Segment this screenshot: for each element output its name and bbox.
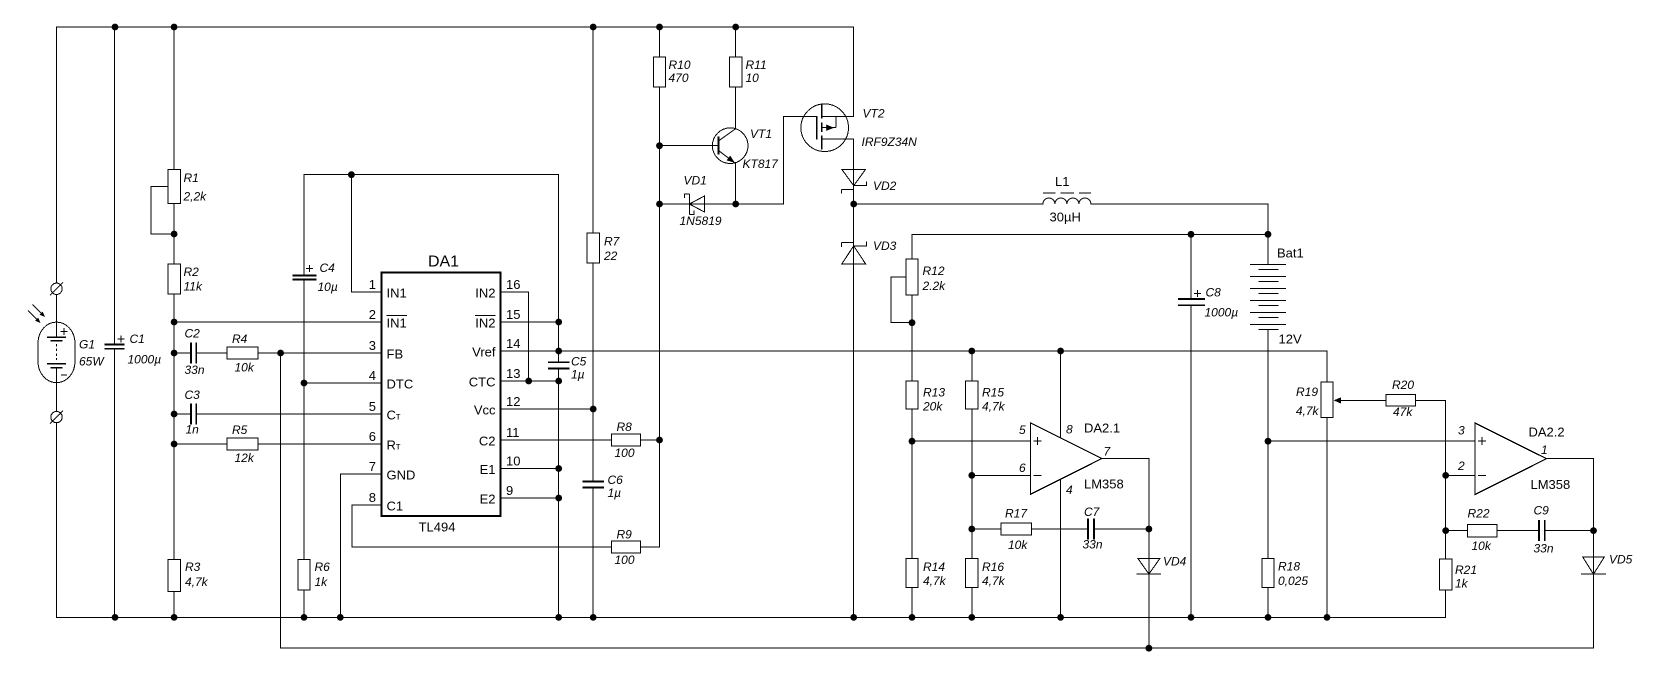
junction (1148.9,648.2): [1146, 645, 1153, 652]
junction (659.5,204): [656, 201, 663, 208]
wire: top +supply rail: [57, 26, 854, 28]
svg-text:IRF9Z34N: IRF9Z34N: [862, 135, 918, 149]
svg-text:6: 6: [369, 429, 376, 444]
resistor R15 4,7k: [966, 381, 978, 409]
svg-text:Cт: Cт: [387, 408, 401, 423]
wire: DA2.1 output drop: [1102, 459, 1149, 530]
label C6 value: [608, 473, 624, 500]
svg-text:8: 8: [369, 490, 376, 505]
DA1 pin 3 FB (number and name): [369, 338, 403, 362]
wire: VD1 cathode line to gate riser: [705, 117, 817, 204]
svg-text:100: 100: [615, 446, 635, 460]
svg-text:11: 11: [506, 425, 520, 440]
DA1 pin 5 Ct (number and name): [369, 399, 401, 423]
label R17 value: [1005, 507, 1028, 553]
svg-text:VD3: VD3: [873, 239, 897, 253]
capacitor C3 1n: [191, 404, 196, 425]
svg-text:4: 4: [1066, 483, 1073, 497]
wire: GND pin7 route: [340, 474, 381, 617]
wire: VD3 anode to ground: [853, 264, 855, 618]
junction (115,27): [112, 24, 119, 31]
junction (971.8,351): [968, 348, 975, 355]
svg-text:E2: E2: [480, 492, 496, 507]
junction (735.7,27): [732, 24, 739, 31]
wire: pin14 Vref line: [501, 350, 559, 352]
svg-text:R20: R20: [1392, 378, 1414, 392]
resistor R3 4,7k: [168, 560, 180, 592]
svg-text:4,7k: 4,7k: [982, 574, 1006, 588]
wire: VD4 branch: [1148, 529, 1150, 648]
svg-text:2: 2: [1457, 459, 1465, 473]
svg-text:1µ: 1µ: [571, 368, 585, 382]
junction (971.8,475.4): [968, 472, 975, 479]
wire: DA2.2 +input line: [1268, 440, 1475, 442]
junction (1060.6,351): [1057, 348, 1064, 355]
capacitor C8 1000u: [1178, 290, 1205, 305]
DA1 pin 8 C1 (number and name): [369, 490, 403, 514]
resistor R9 100: [612, 541, 641, 553]
resistor R1 2,2k trimmer: [151, 170, 180, 234]
svg-text:1n: 1n: [186, 423, 200, 437]
label R8 value: [615, 420, 635, 460]
svg-text:R4: R4: [232, 332, 248, 346]
svg-text:2,2k: 2,2k: [183, 190, 208, 204]
svg-text:R16: R16: [982, 560, 1004, 574]
resistor R2 11k: [168, 264, 180, 294]
capacitor C9 33n: [1539, 520, 1545, 541]
svg-text:7: 7: [369, 459, 376, 474]
wire: C8 branch: [1190, 234, 1192, 617]
wire: R22-C9 feedback line: [1446, 530, 1594, 532]
label C3 value: [185, 388, 201, 437]
svg-text:1N5819: 1N5819: [680, 214, 722, 228]
svg-text:C6: C6: [608, 473, 624, 487]
DA1 pin 4 DTC (number and name): [369, 368, 413, 392]
label L1 value 30uH: [1050, 174, 1081, 225]
resistor R13 20k: [906, 381, 918, 409]
label C5 value: [571, 355, 587, 382]
transistor VT1 KT817 (NPN): [712, 128, 748, 164]
junction (174.1,617.4): [171, 614, 178, 621]
capacitor C2 33n: [191, 343, 196, 364]
svg-text:CTC: CTC: [469, 375, 496, 390]
wire: VD1 anode line: [660, 203, 705, 205]
wire: DA2.2 -input line: [1446, 474, 1475, 476]
resistor R17 10k: [1001, 523, 1032, 535]
label G1 value 65W: [79, 338, 105, 369]
wire: Vref rail: [559, 350, 1327, 352]
wire: R6 branch: [303, 383, 305, 617]
junction (174.1,27): [171, 24, 178, 31]
svg-text:11k: 11k: [184, 280, 203, 294]
DA1 pin 6 Rt (number and name): [369, 429, 401, 453]
wire: C5 vertical (soft line down): [558, 175, 560, 618]
resistor R19 4,7k trimmer: [1321, 382, 1333, 417]
svg-text:VT2: VT2: [863, 107, 885, 121]
svg-text:C7: C7: [1084, 505, 1101, 519]
wire: R20 right riser through R21: [1445, 400, 1447, 617]
R19 wiper arrow from R20: [1334, 397, 1387, 403]
svg-text:C1: C1: [387, 499, 404, 514]
DA1 pin 13 CTC (number and name): [469, 366, 521, 390]
label VT2 type IRF9Z34N: [862, 107, 918, 150]
resistor R4 10k: [227, 347, 258, 359]
wire: R11 branch: [735, 27, 737, 129]
label R15 value: [982, 386, 1006, 414]
svg-text:47k: 47k: [1393, 405, 1413, 419]
junction (1445.7,475.4): [1442, 472, 1449, 479]
svg-text:1000µ: 1000µ: [1205, 306, 1239, 320]
svg-text:C9: C9: [1534, 504, 1550, 518]
capacitor C5 1u: [548, 362, 569, 368]
DA1 pin 12 Vcc (number and name): [474, 394, 521, 418]
label R4 value: [232, 332, 255, 375]
svg-text:LM358: LM358: [1531, 477, 1571, 492]
svg-text:16: 16: [506, 277, 520, 292]
label R16 value: [982, 560, 1006, 588]
junction (340.3,617.4): [337, 614, 344, 621]
svg-text:10: 10: [746, 71, 760, 85]
svg-text:KT817: KT817: [743, 157, 780, 171]
wire: VT2 source riser: [853, 27, 855, 117]
label R10 value: [669, 58, 691, 85]
DA1 pin 2 IN1 (number and name): [369, 307, 407, 331]
svg-text:R17: R17: [1005, 507, 1028, 521]
label R21 value: [1455, 563, 1477, 591]
resistor R14 4,7k: [906, 559, 918, 588]
junction (558.7,381): [555, 378, 562, 385]
svg-text:R2: R2: [184, 265, 200, 279]
battery Bat1 12V: [1250, 204, 1286, 351]
junction (558.7,322): [555, 319, 562, 326]
svg-text:6: 6: [1019, 461, 1026, 475]
junction (912,441.2): [909, 438, 916, 445]
junction (853.7,204): [850, 201, 857, 208]
wire: G1 upper branch: [56, 27, 58, 283]
junction (593.2,409): [590, 406, 597, 413]
junction (1148.9,529): [1146, 526, 1153, 533]
svg-text:IN1: IN1: [387, 286, 407, 301]
junction (735.7,204): [732, 201, 739, 208]
wire: C2-R4 line to FB: [174, 352, 382, 354]
svg-text:LM358: LM358: [1084, 477, 1124, 492]
junction (1191,617.4): [1188, 614, 1195, 621]
wire: VT1 emitter drop: [735, 164, 737, 205]
label R2 value: [184, 265, 203, 294]
junction (1268,441.2): [1265, 438, 1272, 445]
svg-text:VD2: VD2: [873, 179, 897, 193]
resistor R12 2.2k trimmer: [891, 259, 918, 323]
capacitor C6 1u: [583, 481, 604, 487]
solar battery G1: [28, 295, 75, 412]
junction (1327,617.4): [1324, 614, 1331, 621]
DA1 pin 10 E1 (number and name): [480, 454, 521, 478]
junction (558.7,468.5): [555, 465, 562, 472]
svg-text:R1: R1: [184, 171, 199, 185]
junction (912,617.4): [909, 614, 916, 621]
svg-text:GND: GND: [387, 468, 416, 483]
svg-text:9: 9: [506, 483, 513, 498]
wire: C3 line to Ct pin5: [174, 413, 382, 415]
resistor R5 12k: [227, 438, 258, 450]
svg-text:R9: R9: [617, 528, 633, 542]
junction (528.7,381): [525, 378, 532, 385]
label C7 value: [1083, 505, 1103, 552]
wire: DA2.1 -input line: [972, 474, 1031, 476]
svg-text:R12: R12: [923, 264, 945, 278]
svg-text:10k: 10k: [1008, 538, 1028, 552]
svg-text:TL494: TL494: [419, 520, 456, 535]
svg-text:1: 1: [1541, 443, 1548, 457]
label R9 value: [615, 528, 635, 568]
svg-text:20k: 20k: [922, 400, 943, 414]
svg-text:10µ: 10µ: [318, 280, 338, 294]
junction (174.1,353): [171, 350, 178, 357]
svg-text:R11: R11: [746, 58, 767, 72]
svg-text:10k: 10k: [235, 361, 255, 375]
svg-text:C2: C2: [185, 327, 201, 341]
junction (1445.7,530.6): [1442, 527, 1449, 534]
svg-text:2.2k: 2.2k: [922, 279, 947, 293]
label VT1 type KT817: [743, 127, 780, 171]
wire: soft-start line with C4 branch: [304, 175, 559, 383]
label R3 value: [185, 560, 209, 589]
svg-text:R18: R18: [1278, 560, 1300, 574]
junction (280.6,353): [277, 350, 284, 357]
svg-text:VD4: VD4: [1163, 555, 1187, 569]
resistor R22 10k: [1467, 524, 1497, 536]
diode VD1 1N5819 (Schottky): [685, 194, 705, 215]
resistor R18 0,025: [1262, 559, 1274, 588]
svg-text:R5: R5: [232, 423, 248, 437]
svg-text:C4: C4: [320, 261, 336, 275]
svg-text:30µH: 30µH: [1050, 210, 1081, 225]
wire: R10 / VD1 / R8-R9 vertical: [659, 27, 661, 547]
svg-text:C3: C3: [185, 388, 201, 402]
svg-text:DA2.1: DA2.1: [1084, 421, 1120, 436]
wire: R19 branch: [1326, 351, 1328, 617]
svg-text:R10: R10: [669, 58, 691, 72]
svg-text:Rт: Rт: [387, 438, 401, 453]
junction (1268,617.4): [1265, 614, 1272, 621]
svg-text:14: 14: [506, 336, 520, 351]
op-amp DA2.2 LM358: [1475, 423, 1547, 495]
connector X2 bottom (G1 plug): [50, 411, 63, 424]
label R6 value: [315, 560, 331, 589]
svg-text:4: 4: [369, 368, 376, 383]
svg-text:C5: C5: [571, 355, 587, 369]
wire: pin9 E2 line: [501, 497, 559, 499]
junction (971.8,529): [968, 526, 975, 533]
svg-text:Vcc: Vcc: [474, 403, 496, 418]
svg-text:VD1: VD1: [684, 174, 707, 188]
svg-text:4,7k: 4,7k: [982, 400, 1006, 414]
resistor R6 1k: [298, 560, 310, 590]
junction (593.2,27): [590, 24, 597, 31]
junction (174.1,322): [171, 319, 178, 326]
DA1 pin 7 GND (number and name): [369, 459, 416, 483]
svg-text:R21: R21: [1455, 563, 1477, 577]
diode VD2 (Schottky): [842, 169, 867, 193]
wire: R17-C7 feedback line: [972, 528, 1149, 530]
junction (1593.5,530.6): [1590, 527, 1597, 534]
svg-text:R8: R8: [617, 420, 633, 434]
junction (558.7,617.4): [555, 614, 562, 621]
inductor L1 30uH: [1043, 193, 1091, 204]
svg-text:DA1: DA1: [428, 254, 459, 271]
wire: DA2.1 +input line: [912, 440, 1031, 442]
svg-text:C1: C1: [130, 332, 145, 346]
junction (304,617.4): [301, 614, 308, 621]
svg-text:IN1: IN1: [387, 316, 407, 331]
svg-text:2: 2: [369, 307, 376, 322]
wire: R15-R16 chain: [971, 351, 973, 617]
label C1 value: [128, 332, 162, 367]
svg-text:R14: R14: [923, 560, 945, 574]
svg-text:12V: 12V: [1279, 332, 1302, 347]
resistor R11 10: [730, 57, 742, 87]
diode VD5: [1581, 557, 1606, 574]
junction (659.5,145.7): [656, 142, 663, 149]
wire: G1 lower branch: [56, 423, 58, 618]
wire: pin16 to pin13 link: [501, 292, 529, 381]
wire: pin1 IN1 line: [351, 175, 381, 292]
svg-text:4,7k: 4,7k: [185, 575, 209, 589]
junction (174.1,444): [171, 441, 178, 448]
wire: DTC pin4 line: [304, 382, 382, 384]
label R13 value: [922, 386, 945, 414]
wire: ground rail: [57, 616, 1446, 618]
DA1 pin 15 IN2 (number and name): [475, 307, 520, 331]
junction (971.8,617.4): [968, 614, 975, 621]
svg-text:1: 1: [369, 277, 376, 292]
wire: FB feedback vertical: [280, 353, 282, 648]
wire: pin11 C2 line through R8: [501, 439, 660, 441]
junction (174.1,414): [171, 411, 178, 418]
junction (351.4,174.7): [348, 171, 355, 178]
svg-text:3: 3: [369, 338, 376, 353]
label VD1 type 1N5819: [680, 174, 722, 229]
junction (593.2,617.4): [590, 614, 597, 621]
junction (1191,234.3): [1188, 231, 1195, 238]
svg-text:0,025: 0,025: [1278, 574, 1308, 588]
wire: VT1 base line: [660, 145, 719, 147]
wire: pin13 CTC line: [501, 380, 559, 382]
svg-text:1000µ: 1000µ: [128, 353, 162, 367]
label R20 value: [1392, 378, 1414, 419]
wire: buck output line to L1: [854, 204, 1268, 265]
svg-text:33n: 33n: [185, 363, 205, 377]
svg-text:470: 470: [669, 71, 689, 85]
svg-text:R6: R6: [315, 560, 331, 574]
svg-text:DTC: DTC: [387, 377, 414, 392]
svg-text:R19: R19: [1296, 385, 1318, 399]
wire: R7 / C6 branch: [592, 27, 594, 617]
capacitor C1 1000u: [105, 336, 125, 349]
DA1 pin 1 IN1 (number and name): [369, 277, 407, 301]
label R5 value: [232, 423, 255, 465]
wire: feedback rail (to FB pin3): [281, 647, 1594, 649]
resistor R8 100: [612, 434, 641, 446]
wire: pin2 IN1bar line: [174, 321, 382, 323]
svg-text:1k: 1k: [315, 575, 329, 589]
connector X1 top (G1 plug): [50, 282, 63, 295]
svg-text:33n: 33n: [1083, 538, 1103, 552]
label C8 value: [1205, 286, 1239, 320]
svg-text:G1: G1: [79, 338, 95, 352]
wire: pin12 Vcc line: [501, 408, 594, 410]
junction (558.7,498): [555, 495, 562, 502]
svg-text:R3: R3: [185, 560, 201, 574]
wire: pin10 E1 line: [501, 468, 559, 470]
label R12 value: [922, 264, 947, 293]
svg-text:65W: 65W: [79, 355, 105, 369]
wire: C1 branch: [114, 27, 116, 617]
label C2 value: [185, 327, 205, 378]
svg-text:12: 12: [506, 394, 520, 409]
op-amp DA2.1 LM358: [1031, 423, 1102, 495]
junction (558.7,351): [555, 348, 562, 355]
wire: VD5 branch: [1593, 531, 1595, 649]
svg-text:33n: 33n: [1534, 542, 1554, 556]
junction (1060.6,617.4): [1057, 614, 1064, 621]
wire: DA2.1 pin4 to ground: [1060, 479, 1062, 617]
label R14 value: [923, 560, 947, 588]
svg-text:13: 13: [506, 366, 520, 381]
svg-text:4,7k: 4,7k: [923, 574, 947, 588]
svg-text:10k: 10k: [1472, 539, 1492, 553]
wire: VD2-VD3 junction segment: [853, 186, 855, 264]
svg-text:C2: C2: [479, 434, 496, 449]
svg-text:L1: L1: [1055, 174, 1069, 189]
label C9 value: [1534, 504, 1554, 556]
svg-text:7: 7: [1104, 445, 1112, 459]
resistor R21 1k: [1440, 559, 1452, 590]
junction (659.5,27): [656, 24, 663, 31]
svg-text:Vref: Vref: [472, 345, 496, 360]
DA1 pin 14 Vref (number and name): [472, 336, 520, 360]
svg-text:R15: R15: [982, 386, 1004, 400]
svg-text:DA2.2: DA2.2: [1529, 425, 1565, 440]
junction (115,617.4): [112, 614, 119, 621]
IC DA1 TL494 body: [382, 273, 501, 516]
svg-text:IN2: IN2: [475, 316, 495, 331]
DA1 pin 11 C2 (number and name): [479, 425, 520, 449]
wire: pin8 C1 to R9 route: [352, 505, 659, 547]
svg-text:C8: C8: [1206, 286, 1222, 300]
resistor R7 22: [587, 233, 599, 263]
svg-text:5: 5: [369, 399, 376, 414]
resistor R10 470: [653, 57, 665, 87]
svg-text:R7: R7: [604, 235, 621, 249]
label R18 value: [1278, 560, 1308, 589]
junction (304,383): [301, 380, 308, 387]
label R1 value: [183, 171, 208, 204]
svg-text:R22: R22: [1468, 507, 1490, 521]
junction (912,322.7): [909, 319, 916, 326]
junction (659.5,440): [656, 437, 663, 444]
svg-text:10: 10: [506, 454, 520, 469]
svg-text:Bat1: Bat1: [1277, 246, 1304, 261]
wire: output node rail to battery: [912, 233, 1268, 235]
capacitor C4 10u: [293, 265, 317, 280]
wire: R5 line to Rt pin6: [174, 443, 382, 445]
wire: R12-R13-R14 chain: [911, 234, 913, 617]
capacitor C7 33n: [1088, 519, 1094, 540]
label R7 value: [603, 235, 621, 264]
diode VD3 (Schottky): [842, 242, 867, 264]
junction (853.7,617.4): [850, 614, 857, 621]
